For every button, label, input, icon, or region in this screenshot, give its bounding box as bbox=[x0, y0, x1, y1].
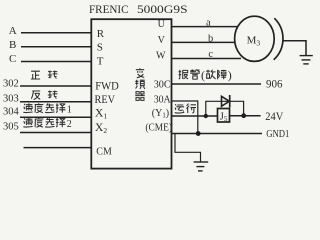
svg-text:W: W bbox=[156, 51, 166, 62]
relay coil J5 bbox=[218, 109, 230, 124]
svg-text:R: R bbox=[97, 28, 105, 40]
diode D1 bbox=[222, 95, 230, 108]
wire 30C to 906 bbox=[172, 83, 262, 85]
svg-text:b: b bbox=[208, 33, 213, 44]
wire V to motor, phase b bbox=[172, 41, 236, 43]
wire Y1 to relay bbox=[172, 115, 218, 117]
svg-text:U: U bbox=[158, 19, 166, 30]
wire 303 to REV bbox=[20, 101, 91, 103]
wire 305 to X2 bbox=[20, 132, 91, 134]
svg-text:5000G9S: 5000G9S bbox=[137, 2, 188, 16]
svg-text:304: 304 bbox=[3, 106, 20, 117]
svg-text:B: B bbox=[9, 39, 16, 51]
wire diode branch bbox=[206, 101, 244, 116]
svg-text:2: 2 bbox=[67, 119, 72, 130]
junction node J1 on Y1 wire bbox=[204, 114, 208, 118]
svg-text:906: 906 bbox=[266, 78, 283, 90]
svg-text:T: T bbox=[97, 55, 104, 67]
label 报警(故障) (alarm fault) bbox=[179, 68, 232, 82]
svg-text:FWD: FWD bbox=[95, 80, 119, 92]
wire 302 to FWD bbox=[20, 85, 91, 87]
wire stub to CM bbox=[24, 147, 92, 149]
wire relay to 24V bbox=[230, 115, 261, 117]
svg-text:V: V bbox=[158, 35, 166, 46]
label 变频器 (inverter) vertical bbox=[135, 68, 145, 100]
svg-text:FRENIC: FRENIC bbox=[89, 2, 129, 16]
junction node J2 on Y1 wire bbox=[241, 113, 246, 118]
svg-text:(CME): (CME) bbox=[145, 122, 172, 133]
label 反转 (reverse) bbox=[31, 91, 57, 100]
label 速度选择1 (speed select 1) bbox=[23, 103, 72, 115]
wire 304 to X1 bbox=[20, 116, 91, 118]
svg-text:302: 302 bbox=[3, 79, 19, 90]
wire C to T bbox=[21, 61, 91, 63]
ground G1 bbox=[300, 56, 313, 64]
svg-text:): ) bbox=[228, 68, 232, 82]
ground G2 bbox=[194, 162, 209, 171]
svg-text:A: A bbox=[9, 25, 17, 37]
svg-text:24V: 24V bbox=[265, 111, 284, 123]
wire U to motor, phase a bbox=[172, 26, 238, 28]
wire W to motor, phase c bbox=[172, 58, 242, 60]
motor shield arc bbox=[274, 18, 283, 60]
svg-text:30A: 30A bbox=[154, 93, 171, 105]
wire CME to GND1 bbox=[172, 133, 263, 135]
svg-text:CM: CM bbox=[96, 146, 112, 158]
svg-text:GND1: GND1 bbox=[266, 128, 289, 140]
svg-text:S: S bbox=[97, 42, 103, 54]
label 运行 (run) box bbox=[172, 101, 198, 116]
svg-text:C: C bbox=[9, 53, 16, 65]
svg-text:(Y1): (Y1) bbox=[152, 108, 169, 120]
svg-text:a: a bbox=[206, 18, 211, 29]
svg-text:c: c bbox=[208, 49, 213, 60]
motor M3 bbox=[235, 16, 275, 61]
wire run-box edge down to CME bbox=[197, 116, 199, 134]
svg-text:303: 303 bbox=[3, 93, 19, 104]
svg-text:1: 1 bbox=[67, 105, 72, 116]
svg-text:REV: REV bbox=[95, 94, 116, 106]
svg-text:(: ( bbox=[201, 68, 205, 82]
wire B to S bbox=[21, 46, 91, 48]
wire arc to ground G1 bbox=[283, 41, 307, 55]
junction node on CME wire bbox=[196, 131, 201, 136]
svg-text:305: 305 bbox=[3, 121, 19, 132]
wire CME branch to ground G2 bbox=[175, 134, 201, 162]
label 速度选择2 (speed select 2) bbox=[23, 118, 72, 130]
label 正转 (forward) bbox=[31, 71, 58, 80]
wire A to R bbox=[21, 32, 91, 34]
svg-text:30C: 30C bbox=[154, 78, 171, 90]
inverter U1 box bbox=[91, 19, 171, 168]
